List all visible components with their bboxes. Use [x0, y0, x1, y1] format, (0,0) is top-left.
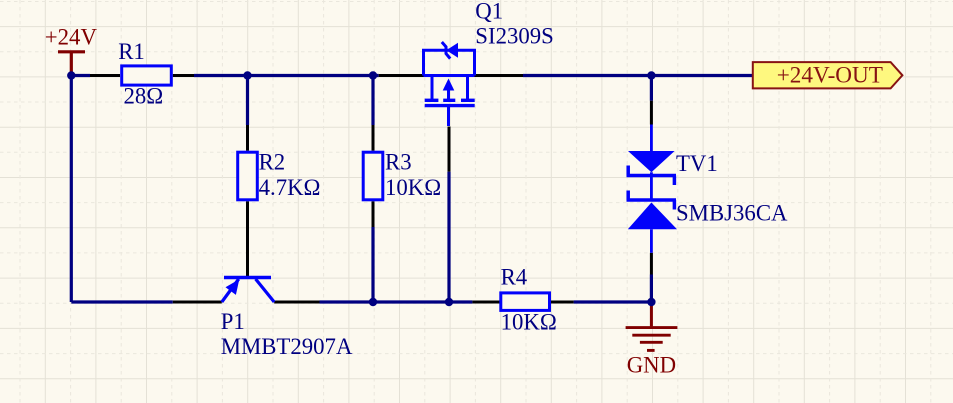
pin: P1 emitter pin: [173, 301, 222, 304]
svg-text:R4: R4: [501, 264, 528, 289]
pin: R2 pin 1: [246, 125, 249, 151]
pin: TV1 pin 1: [650, 101, 653, 125]
junction node R3 bottom: [369, 298, 377, 306]
wire: Q1 drain to output port: [523, 74, 753, 77]
junction node gate: [445, 298, 453, 306]
wire: top node to TV1: [650, 76, 653, 101]
svg-text:P1: P1: [221, 309, 245, 334]
resistor R1: [122, 66, 172, 85]
svg-text:10KΩ: 10KΩ: [385, 175, 441, 200]
junction node R3 top: [369, 71, 377, 79]
pin: Q1 source pin: [379, 74, 424, 77]
pin: R4 pin 2: [551, 301, 574, 304]
port +24V-OUT: [753, 62, 903, 88]
svg-text:R1: R1: [118, 39, 145, 64]
svg-text:4.7KΩ: 4.7KΩ: [259, 175, 321, 200]
pin: TV1 pin 2: [650, 253, 653, 275]
junction node output: [647, 71, 655, 79]
svg-text:Q1: Q1: [475, 0, 503, 24]
pin: Q1 drain pin: [475, 74, 524, 77]
junction node GND: [647, 298, 655, 306]
svg-text:MMBT2907A: MMBT2907A: [221, 334, 353, 359]
pin: R1 pin 1: [90, 74, 120, 77]
svg-text:R3: R3: [385, 150, 412, 175]
wire: bottom rail P1 collector to R4: [320, 300, 473, 303]
pin: Q1 gate pin: [448, 127, 451, 172]
svg-text:SMBJ36CA: SMBJ36CA: [676, 201, 788, 226]
wire: top node to R3: [371, 76, 374, 126]
ground GND: [626, 302, 678, 350]
svg-text:SI2309S: SI2309S: [475, 23, 554, 48]
resistor R3: [363, 152, 383, 200]
power symbol +24V: [58, 52, 85, 76]
pin: R4 pin 1: [472, 301, 500, 304]
wire: left vertical rail: [70, 76, 73, 303]
svg-text:10KΩ: 10KΩ: [501, 310, 557, 335]
svg-text:28Ω: 28Ω: [124, 84, 164, 109]
transistor P1 (PNP MMBT2907A): [222, 278, 274, 303]
svg-text:TV1: TV1: [676, 151, 718, 176]
svg-text:+24V-OUT: +24V-OUT: [777, 63, 883, 89]
pin: P1 base pin: [246, 238, 249, 276]
junction node +24V rail: [67, 71, 75, 79]
resistor R4: [501, 293, 550, 311]
wire: top node to R2: [246, 76, 249, 126]
pin: R3 pin 2: [372, 201, 375, 227]
svg-text:R2: R2: [259, 150, 286, 175]
pin: R2 pin 2: [246, 201, 249, 238]
wire: bottom rail left of P1: [71, 300, 173, 303]
wire: R1 to R2/R3 top nodes: [194, 74, 379, 77]
transistor Q1 (P-MOSFET SI2309S): [424, 42, 475, 126]
diode TV1 (TVS SMBJ36CA): [627, 125, 678, 253]
wire: +24V junction to R1: [71, 74, 90, 77]
wire: TV1 bottom to GND node: [650, 275, 653, 303]
pin: R3 pin 1: [372, 125, 375, 151]
pin: R1 pin 2: [173, 74, 194, 77]
wire: Q1 gate to bottom rail: [447, 172, 450, 302]
svg-text:GND: GND: [627, 353, 676, 378]
wire: R4 to GND node: [574, 300, 652, 303]
svg-text:+24V: +24V: [45, 25, 98, 50]
wire: R3 bottom to bottom rail: [371, 227, 374, 302]
junction node R2 top: [243, 71, 251, 79]
pin: P1 collector pin: [274, 301, 319, 304]
resistor R2: [238, 152, 258, 200]
